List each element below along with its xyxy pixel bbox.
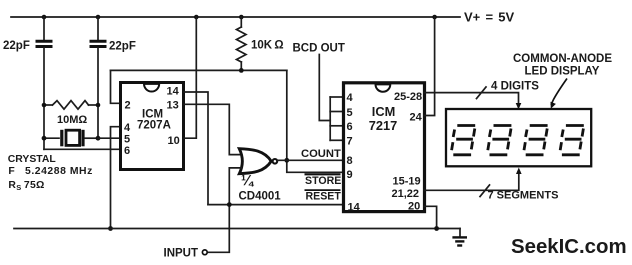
wire bracket BCD pins 4-7 (U2) <box>330 97 343 140</box>
wire RESET line to pin 14 (U2) <box>208 204 343 206</box>
wire 10K net horizontal <box>111 69 287 71</box>
wire left branch x=44 lower <box>43 48 45 149</box>
wire 10K net down to COUNT/STORE <box>287 70 343 172</box>
svg-text:INPUT: INPUT <box>164 248 199 260</box>
svg-text:22pF: 22pF <box>3 40 30 52</box>
wire second branch x=98 upper <box>97 17 99 40</box>
svg-text:CRYSTAL: CRYSTAL <box>8 154 57 165</box>
label pin 14 (U2) <box>348 202 361 214</box>
op-amp U2 ICM7217 body <box>344 83 425 212</box>
ground rail bottom <box>14 228 460 230</box>
label pin 5 (U1) <box>124 134 130 146</box>
label CRYSTAL <box>8 154 57 165</box>
svg-text:5: 5 <box>347 107 353 119</box>
wire pin6 (U1) to crystal branch <box>44 148 120 150</box>
label pins 21,22 (U2) <box>392 188 420 200</box>
wire pins 25-28 (U2) to display 4 digits arrow <box>424 93 521 110</box>
svg-text:COUNT: COUNT <box>301 148 341 160</box>
node pin 20 ground junction <box>434 226 439 231</box>
svg-text:8: 8 <box>347 155 353 167</box>
display digit 3 <box>524 126 548 155</box>
label 4 DIGITS <box>491 81 539 93</box>
svg-text:9: 9 <box>347 169 353 181</box>
node V+ junction C2 <box>96 15 101 20</box>
svg-text:14: 14 <box>167 86 180 98</box>
wire pins 15-19,21,22 (U2) to display 7 segments arrow <box>424 168 522 191</box>
svg-text:7 SEGMENTS: 7 SEGMENTS <box>488 189 559 201</box>
svg-text:LED DISPLAY: LED DISPLAY <box>525 66 600 78</box>
svg-text:5.24288 MHz: 5.24288 MHz <box>25 166 93 177</box>
resistor R1 10M <box>44 101 98 110</box>
wire slash 4 digits bus mark <box>477 87 487 99</box>
crystal Y1 <box>44 130 98 147</box>
label pin 7 (U2) <box>347 136 353 148</box>
transistor-gate NOR 1/4 CD4001 <box>239 149 277 174</box>
svg-text:STORE: STORE <box>305 175 341 187</box>
label INPUT <box>164 248 199 260</box>
node NOR output junction <box>284 158 289 163</box>
svg-text:RS 75Ω: RS 75Ω <box>8 180 44 192</box>
label ICM 7217 <box>369 104 397 133</box>
display digit 4 <box>560 126 584 155</box>
wire NOR output COUNT to pin 8 (U2) <box>278 159 344 161</box>
svg-text:7207A: 7207A <box>137 120 171 132</box>
svg-text:7217: 7217 <box>369 118 397 133</box>
wire V+ top rail <box>11 16 460 18</box>
label ICM 7207A <box>137 109 171 132</box>
node R2 bottom junction <box>239 68 244 73</box>
label pin 6 (U1) <box>124 145 130 157</box>
label V+ = 5V <box>464 10 514 25</box>
wire pin13 (U1) to NOR input A <box>184 104 242 154</box>
label 10K ohm <box>251 40 284 52</box>
label pin 20 (U2) <box>408 201 420 213</box>
svg-text:F: F <box>8 166 14 177</box>
label 22pF (C1) <box>3 40 30 52</box>
svg-text:BCD OUT: BCD OUT <box>293 43 345 55</box>
svg-text:ICM: ICM <box>372 104 395 119</box>
svg-text:24: 24 <box>410 112 423 124</box>
wire V+ to pin 24 (U2) <box>424 17 435 116</box>
label Rs 75 ohm <box>8 180 44 192</box>
svg-text:6: 6 <box>347 121 353 133</box>
wire pin2 (U1) to 10K line <box>111 70 121 103</box>
node V+ junction R 10K <box>239 15 244 20</box>
node INPUT junction on RESET line <box>227 202 232 207</box>
display digit 2 <box>488 126 512 155</box>
node crystal left junction <box>42 136 47 141</box>
svg-text:COMMON-ANODE: COMMON-ANODE <box>513 53 612 65</box>
label CD4001 <box>239 191 282 203</box>
label RESET with overline <box>305 190 342 202</box>
label pin 13 (U1) <box>167 100 179 112</box>
label pin 4 (U1) <box>124 122 131 134</box>
label pins 25-28 (U2) <box>394 91 422 103</box>
svg-text:V+ = 5V: V+ = 5V <box>464 10 514 25</box>
svg-text:20: 20 <box>408 201 420 213</box>
svg-text:4: 4 <box>347 92 354 104</box>
svg-text:25-28: 25-28 <box>394 91 422 103</box>
wire pin 20 (U2) to ground rail <box>424 206 437 228</box>
label 7 SEGMENTS <box>488 189 559 201</box>
node crystal right junction <box>96 136 101 141</box>
node pin4 wire to ground rail <box>108 226 113 231</box>
label STORE with overline <box>305 174 342 187</box>
label pin 24 (U2) <box>410 112 423 124</box>
display LED 4-digit module <box>446 109 591 166</box>
wire NOR input B from INPUT <box>208 168 242 252</box>
node R1 right junction <box>96 103 101 108</box>
wire pin14 (U1) down to RESET line <box>184 92 208 205</box>
label COUNT <box>301 148 341 160</box>
wire second branch x=98 lower <box>97 48 99 138</box>
label pin 8 (U2) <box>347 155 353 167</box>
svg-text:6: 6 <box>124 145 130 157</box>
svg-text:7: 7 <box>347 136 353 148</box>
label COMMON-ANODE LED DISPLAY <box>513 53 612 78</box>
op-amp U1 ICM7207A body <box>121 83 184 170</box>
svg-text:4 DIGITS: 4 DIGITS <box>491 81 539 93</box>
wire curved arrow to display <box>551 79 568 109</box>
svg-text:14: 14 <box>348 202 361 214</box>
label 10M ohm <box>57 114 87 126</box>
wire V+ to pin10 (U1) <box>184 17 196 138</box>
label pin 10 (U1) <box>168 135 180 147</box>
label pin 14 (U1) <box>167 86 180 98</box>
display digit 1 <box>452 126 476 155</box>
svg-text:10K Ω: 10K Ω <box>251 40 284 52</box>
label pin 6 (U2) <box>347 121 353 133</box>
label pins 15-19 (U2) <box>393 176 421 188</box>
ground <box>452 229 467 246</box>
label pin 4 (U2) <box>347 92 354 104</box>
svg-text:4: 4 <box>124 122 131 134</box>
label BCD OUT <box>293 43 345 55</box>
wire pin5 (U1) from crystal <box>98 137 120 139</box>
svg-text:RESET: RESET <box>306 191 342 203</box>
capacitor C1 22pF <box>36 41 53 46</box>
label pin 5 (U2) <box>347 107 353 119</box>
svg-text:CD4001: CD4001 <box>239 191 282 203</box>
label SeekIC.com watermark <box>511 236 627 258</box>
label 1/4 <box>241 174 255 190</box>
label pin 9 (U2) <box>347 169 353 181</box>
node V+ junction C1 <box>42 15 47 20</box>
wire pin4 (U1) down to ground rail <box>111 127 121 229</box>
wire left branch x=44 upper <box>43 17 45 40</box>
svg-text:13: 13 <box>167 100 179 112</box>
svg-text:21,22: 21,22 <box>392 188 420 200</box>
label F 5.24288 MHz <box>8 166 92 177</box>
node R1 left junction <box>42 103 47 108</box>
wire BCD OUT to bracket <box>319 55 330 121</box>
svg-text:¼: ¼ <box>241 174 255 190</box>
capacitor C2 22pF <box>90 41 107 46</box>
node V+ junction pin24 wire <box>432 15 437 20</box>
node V+ junction pin10 wire <box>194 15 199 20</box>
svg-text:2: 2 <box>125 100 131 112</box>
svg-text:15-19: 15-19 <box>393 176 421 188</box>
wire slash 7 segments bus mark <box>480 185 490 197</box>
svg-text:22pF: 22pF <box>109 41 136 53</box>
label 22pF (C2) <box>109 41 136 53</box>
node terminal INPUT <box>202 250 207 255</box>
svg-text:5: 5 <box>124 134 130 146</box>
svg-text:SeekIC.com: SeekIC.com <box>511 236 627 258</box>
resistor R2 10K <box>237 17 247 70</box>
svg-text:10MΩ: 10MΩ <box>57 114 87 126</box>
svg-text:10: 10 <box>168 135 180 147</box>
label pin 2 (U1) <box>125 100 131 112</box>
